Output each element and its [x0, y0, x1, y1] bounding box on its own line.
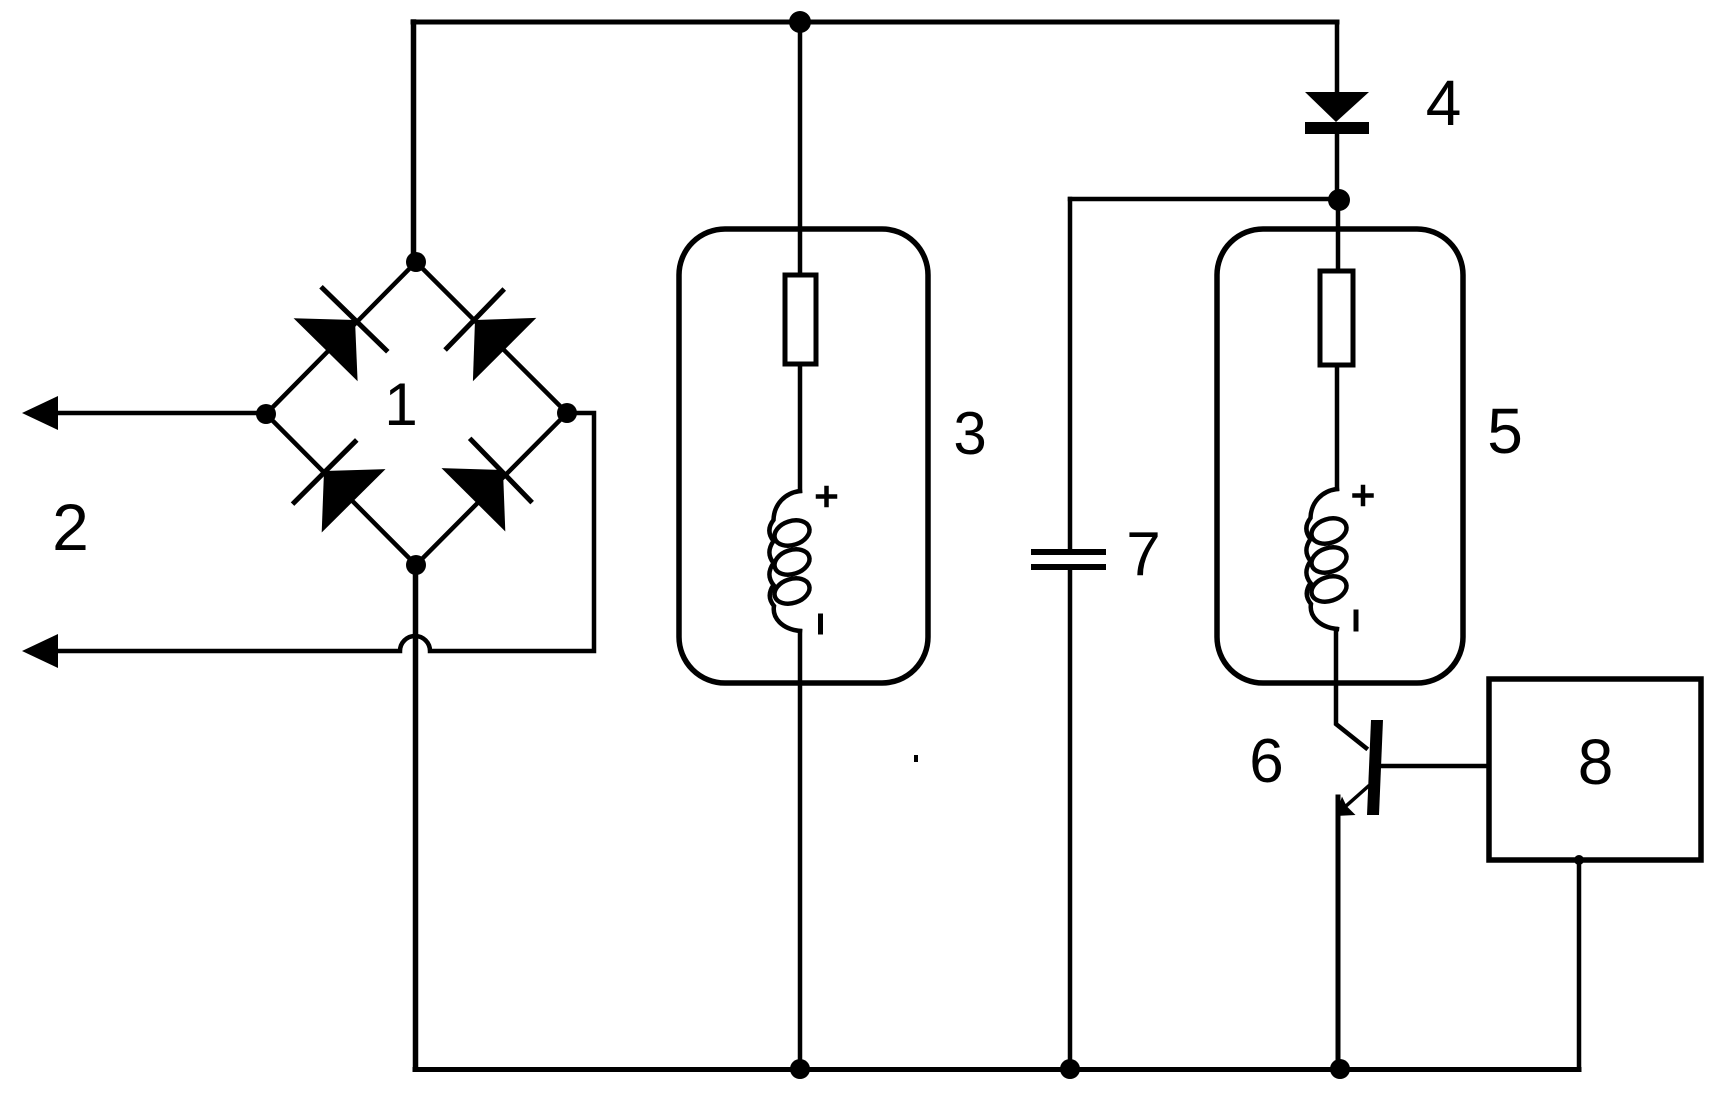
diode D1 top-left triangle: [294, 318, 358, 381]
wire top bus: [413, 20, 1337, 25]
wire capacitor top lead: [1068, 199, 1073, 550]
wire left drop from top bus to bridge top: [411, 22, 417, 262]
diode D3 bottom-left cathode bar: [294, 442, 355, 503]
node bridge bottom: [406, 555, 426, 575]
inductor coil in relay 5 loop c: [1308, 572, 1350, 606]
inductor coil in relay 5 spine: [1306, 489, 1337, 629]
node bridge left: [256, 404, 276, 424]
wire top bus to diode 4: [1335, 22, 1340, 92]
diode 4 cathode bar: [1305, 122, 1369, 134]
node bottom bus at capacitor 7: [1060, 1059, 1080, 1079]
inductor coil in relay 5 loop b: [1308, 543, 1350, 577]
svg-text:3: 3: [953, 400, 986, 467]
wire AC terminal lower with hop over vertical: [36, 413, 594, 651]
node bridge top: [406, 252, 426, 272]
node bottom bus at relay 3: [790, 1059, 810, 1079]
wire bottom bus: [415, 1067, 1579, 1072]
diode D1 top-left cathode bar: [323, 289, 386, 351]
wire emitter to bottom bus: [1336, 797, 1341, 1069]
control box 8: [1489, 679, 1701, 860]
wire diode 4 to node: [1335, 134, 1340, 199]
plus mark relay 3: [818, 488, 835, 505]
node bridge right: [557, 403, 577, 423]
resistor in relay 3: [785, 275, 816, 364]
capacitor 7 bottom plate: [1034, 564, 1103, 570]
minus mark relay 3: [818, 616, 823, 632]
svg-text:5: 5: [1487, 395, 1523, 467]
inductor coil in relay 3 loop a: [771, 516, 813, 550]
wire resistor to coil in relay 3: [798, 364, 803, 491]
svg-text:4: 4: [1426, 67, 1462, 139]
diode 4 triangle: [1305, 92, 1369, 122]
bridge rectifier 1 : diamond edges: [266, 262, 567, 565]
wire capacitor bottom lead: [1068, 570, 1073, 1069]
wire transistor base to box 8: [1382, 764, 1487, 769]
diode D2 top-right triangle: [473, 318, 536, 381]
arrow AC lower head: [22, 634, 58, 668]
svg-text:6: 6: [1249, 727, 1283, 796]
node bottom bus at transistor emitter: [1330, 1059, 1350, 1079]
wire resistor to coil in relay 5: [1335, 365, 1340, 489]
resistor in relay 5: [1320, 271, 1353, 365]
diode D4 bottom-right triangle: [442, 468, 506, 531]
svg-text:1: 1: [384, 371, 417, 438]
diode D4 bottom-right cathode bar: [471, 440, 530, 501]
node box 8 bottom stub: [1574, 855, 1584, 865]
wire node to capacitor branch: [1070, 197, 1339, 202]
inductor coil in relay 5 loop a: [1308, 514, 1350, 548]
wire AC terminal upper: [36, 411, 266, 416]
transistor 6 emitter arrow: [1336, 797, 1356, 817]
inductor coil in relay 3 loop c: [771, 574, 813, 608]
wire coil 3 to bottom bus: [798, 631, 803, 1069]
capacitor 7 top plate: [1034, 549, 1103, 555]
inductor coil in relay 3 loop b: [771, 545, 813, 579]
wire top bus into relay 3: [798, 22, 803, 275]
plus mark relay 5: [1355, 487, 1372, 504]
wire node into relay 5: [1336, 200, 1341, 271]
node top-bus junction: [789, 11, 811, 33]
transistor 6 emitter diagonal: [1346, 787, 1368, 807]
diode D3 bottom-left triangle: [322, 469, 386, 532]
relay block 5 outline: [1217, 229, 1463, 683]
wire box 8 to bottom bus: [1577, 860, 1582, 1069]
transistor 6 base bar: [1367, 720, 1383, 815]
minus mark relay 5: [1354, 612, 1359, 629]
node below diode 4: [1328, 189, 1350, 211]
diode D2 top-right cathode bar: [447, 291, 503, 348]
arrow AC upper head: [22, 396, 58, 430]
inductor coil in relay 3 spine: [769, 491, 800, 631]
relay block 3 outline: [679, 229, 928, 683]
wire bridge bottom to bottom bus: [413, 565, 419, 1069]
svg-text:2: 2: [52, 490, 89, 564]
svg-text:8: 8: [1578, 726, 1614, 798]
scan speck: [914, 755, 918, 762]
svg-text:7: 7: [1126, 520, 1160, 589]
wire coil 5 to transistor collector: [1336, 629, 1366, 748]
